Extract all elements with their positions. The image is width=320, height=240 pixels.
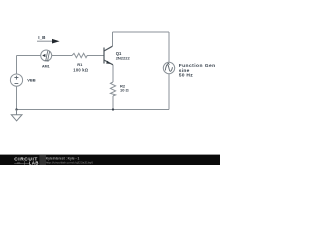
svg-text:50 Hz: 50 Hz xyxy=(179,73,194,79)
wire VBB bottom lead xyxy=(16,86,18,110)
wire ammeter to R1 xyxy=(52,55,72,57)
wire VBB top lead up to node xyxy=(16,56,18,75)
svg-text:10 Ω: 10 Ω xyxy=(120,88,130,93)
svg-text:2N2222: 2N2222 xyxy=(116,56,131,61)
wire emitter to R2 xyxy=(112,65,114,82)
resistor R2 10 Ω xyxy=(110,82,129,96)
wire top rail xyxy=(113,31,170,33)
svg-text:VBB: VBB xyxy=(27,77,36,82)
wire function gen bottom xyxy=(168,74,170,110)
node junction below VBB xyxy=(15,108,17,110)
wire R1 to base xyxy=(87,55,104,57)
svg-text:I_B: I_B xyxy=(38,35,46,40)
current arrow I_B xyxy=(37,35,60,44)
svg-text:AM1: AM1 xyxy=(42,65,50,69)
wire bottom rail xyxy=(17,109,170,111)
wire R2 to rail xyxy=(112,96,114,110)
function generator V1 xyxy=(163,62,215,78)
resistor R1 100 kΩ xyxy=(72,53,89,72)
wire collector vertical xyxy=(112,32,114,46)
wire function gen top drop xyxy=(168,32,170,63)
svg-text:100 kΩ: 100 kΩ xyxy=(73,67,88,72)
node junction below R2 xyxy=(112,108,114,110)
ground xyxy=(11,110,22,121)
wire top-left horizontal to ammeter xyxy=(17,55,41,57)
ammeter AM1 xyxy=(41,50,52,69)
footer bar xyxy=(0,155,220,167)
svg-text:http://circuitlab.com/c/q323a3: http://circuitlab.com/c/q323a31bq6 xyxy=(46,161,93,165)
svg-text:─═─┼─LAB: ─═─┼─LAB xyxy=(13,160,39,165)
voltage source VBB xyxy=(10,74,35,86)
transistor Q1 2N2222 xyxy=(104,46,113,65)
